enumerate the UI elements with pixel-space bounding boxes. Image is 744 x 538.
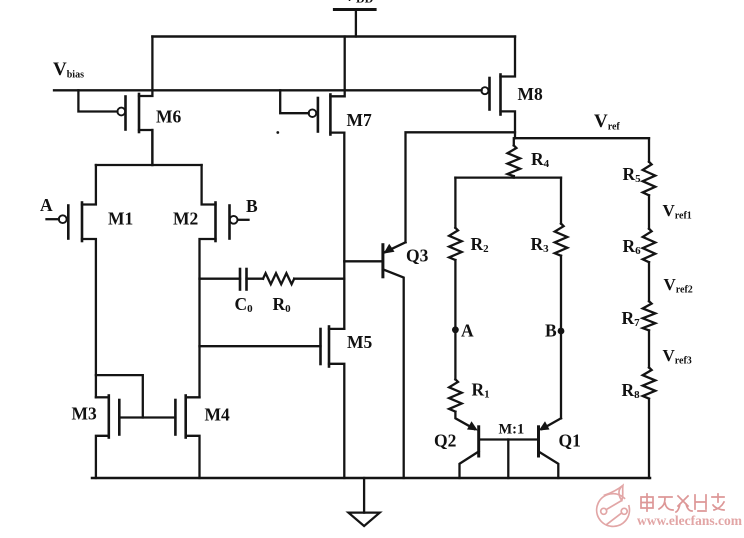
wire: Vref to R5 — [648, 138, 650, 162]
svg-text:Vbias: Vbias — [53, 59, 84, 81]
wire: Q3 emitter to M8 drain — [406, 132, 516, 242]
input stub A — [47, 218, 59, 220]
capacitor C0 — [240, 269, 247, 290]
wire: resistor to M7 drain column — [294, 278, 344, 280]
wire: R5 to R6 — [648, 195, 650, 228]
resistor R7 — [643, 301, 656, 330]
svg-text:M2: M2 — [173, 209, 198, 229]
wire: M3 diode connection — [96, 375, 143, 417]
node A (dot) — [452, 326, 459, 333]
wire: R2/R3 branch top — [455, 176, 561, 178]
svg-text:M1: M1 — [108, 209, 133, 229]
svg-text:R2: R2 — [471, 234, 490, 255]
svg-text:R4: R4 — [531, 149, 550, 170]
wire: VDD top rail — [152, 35, 515, 37]
svg-text:R8: R8 — [622, 380, 641, 401]
resistor R6 — [643, 229, 656, 263]
transistor M8 (PMOS) — [481, 37, 515, 139]
wire: R7 to R8 — [648, 330, 650, 367]
wire: base to ground tap — [507, 440, 509, 479]
wire: R3 branch upper — [560, 178, 562, 224]
svg-text:R3: R3 — [531, 234, 550, 255]
resistor R3 — [555, 224, 568, 256]
svg-text:A: A — [40, 195, 53, 215]
wire: R2 branch upper — [454, 178, 456, 228]
svg-text:M8: M8 — [518, 84, 544, 104]
wire: Q1-Q2 base wire — [479, 438, 539, 440]
wire: M6 gate tap — [78, 90, 117, 111]
transistor M1 (PMOS, gate left) — [59, 165, 96, 397]
svg-text:www.elecfans.com: www.elecfans.com — [637, 513, 743, 528]
resistor R0 — [263, 273, 294, 284]
svg-text:A: A — [461, 321, 474, 341]
svg-text:R7: R7 — [622, 308, 641, 329]
resistor R4 — [508, 138, 521, 177]
svg-text:Vref1: Vref1 — [663, 201, 692, 222]
svg-text:M7: M7 — [347, 110, 373, 130]
wire: Q3 base wire — [344, 260, 383, 262]
wire: diff pair source rail — [151, 130, 153, 165]
stray ink dot — [276, 131, 279, 134]
wire: R2 to R1 — [454, 260, 456, 379]
svg-text:Vref2: Vref2 — [664, 275, 693, 296]
resistor R5 — [643, 162, 656, 196]
wire: ground rail — [92, 477, 650, 480]
transistor M7 (PMOS) — [309, 37, 345, 135]
transistor M3 (NMOS, diode connected) — [96, 396, 119, 479]
svg-text:M:1: M:1 — [499, 422, 525, 438]
transistor M6 (PMOS) — [117, 37, 152, 166]
wire: cap to resistor — [247, 278, 264, 280]
wire: R6 to R7 — [648, 262, 650, 301]
wire: R1 to Q2 emitter — [455, 412, 477, 431]
svg-text:Q1: Q1 — [559, 431, 581, 451]
svg-text:R1: R1 — [472, 380, 490, 401]
svg-text:R6: R6 — [623, 236, 642, 257]
wire: compensation branch left — [200, 278, 241, 280]
wire: M3-M4 gate wire — [119, 416, 175, 418]
svg-text:B: B — [545, 321, 557, 341]
svg-text:R5: R5 — [623, 164, 642, 185]
wire: M7 drain to M5 drain column — [343, 133, 345, 329]
svg-text:Vref: Vref — [594, 111, 620, 133]
wire: R3 to Q1 emitter — [539, 256, 561, 431]
transistor M2 (PMOS, gate right) — [200, 165, 238, 397]
transistor Q3 (PNP) — [383, 242, 406, 478]
svg-text:VDD: VDD — [343, 0, 374, 6]
svg-text:C0: C0 — [235, 294, 254, 315]
transistor M5 (NMOS) — [321, 327, 345, 479]
svg-text:Vref3: Vref3 — [663, 346, 692, 367]
node B (dot) — [558, 328, 565, 335]
wire: Vbias rail — [54, 89, 482, 91]
resistor R2 — [449, 228, 462, 260]
ground — [348, 478, 379, 526]
transistor Q2 (PNP) — [460, 427, 479, 478]
transistor M4 (NMOS) — [175, 396, 199, 479]
input stub B — [238, 219, 249, 221]
svg-text:M5: M5 — [347, 332, 373, 352]
power symbol VDD (clipped label) — [334, 0, 375, 37]
svg-text:B: B — [246, 196, 258, 216]
resistor R1 — [449, 379, 462, 411]
watermark text 电子发烧友 (stylised) — [641, 494, 724, 512]
resistor R8 — [643, 368, 656, 399]
wire: M5 gate wire — [200, 345, 321, 347]
transistor Q1 (PNP) — [539, 427, 559, 478]
svg-text:M6: M6 — [156, 107, 182, 127]
svg-text:Q2: Q2 — [434, 431, 456, 451]
wire: M7 gate tap — [280, 90, 309, 113]
wire: R8 to ground rail — [648, 399, 650, 478]
svg-text:M3: M3 — [72, 404, 98, 424]
svg-text:Q3: Q3 — [406, 246, 429, 266]
wire: Vref rail — [515, 137, 649, 139]
svg-text:M4: M4 — [205, 405, 231, 425]
svg-text:R0: R0 — [273, 294, 292, 315]
watermark logo — [597, 485, 630, 526]
